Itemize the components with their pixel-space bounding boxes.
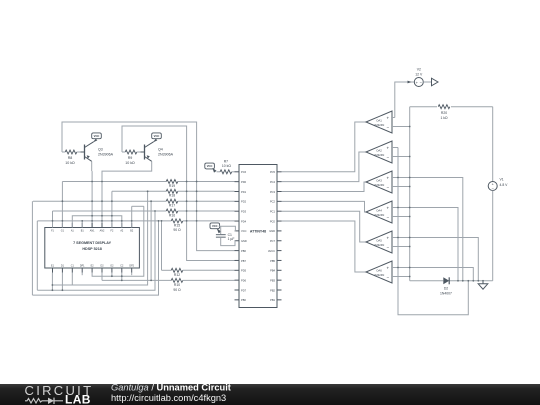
svg-text:−: − xyxy=(386,125,389,130)
D2 label xyxy=(440,287,452,296)
op-amp OA2 xyxy=(366,141,392,163)
wire junctions xyxy=(52,126,484,292)
svg-text:PB5: PB5 xyxy=(270,259,275,263)
svg-text:HDSP 5218: HDSP 5218 xyxy=(82,247,101,251)
svg-text:R20: R20 xyxy=(441,111,447,115)
wire Q3 base net from R8 up and over to PB6 pin of U1 xyxy=(62,122,235,251)
svg-text:R16: R16 xyxy=(169,213,175,217)
OA2 label xyxy=(374,149,385,157)
R12 label xyxy=(174,273,180,277)
svg-text:PB3: PB3 xyxy=(270,278,275,282)
diode D2 xyxy=(443,277,449,284)
footer title text xyxy=(111,383,231,403)
svg-text:R9: R9 xyxy=(128,156,133,160)
svg-text:PD5: PD5 xyxy=(241,269,247,273)
svg-text:OA5: OA5 xyxy=(376,239,382,243)
op-amp OA3 xyxy=(366,171,392,193)
svg-text:D2: D2 xyxy=(444,287,448,291)
transistor Q3 xyxy=(81,142,94,162)
svg-text:Q4: Q4 xyxy=(158,148,163,152)
wire + input extension OA6 to ground rail xyxy=(398,268,473,281)
op-amp OA4 xyxy=(366,201,392,223)
svg-text:−: − xyxy=(386,185,389,190)
svg-text:R8: R8 xyxy=(68,156,73,160)
wire G1 column xyxy=(61,182,63,228)
wire segment row R15 from x37.4 to U1 pin xyxy=(37,220,234,222)
wire OA3 + input stub xyxy=(392,177,398,179)
svg-text:PD7: PD7 xyxy=(241,288,247,292)
wire V1 top xyxy=(492,107,494,182)
OA6 label xyxy=(374,269,385,277)
svg-text:R19: R19 xyxy=(169,184,175,188)
wire PC2 to op-amp OA4 output xyxy=(282,201,367,212)
wire segment row R17 from x33 to U1 pin xyxy=(33,200,235,202)
svg-text:OA6: OA6 xyxy=(376,269,382,273)
wire PD2 wraparound column xyxy=(31,201,33,295)
OA3 label xyxy=(374,179,385,187)
svg-text:R12: R12 xyxy=(174,273,180,277)
wire cluster v5 stair xyxy=(32,221,158,295)
svg-text:LM324N: LM324N xyxy=(374,213,385,217)
svg-text:LM324N: LM324N xyxy=(374,243,385,247)
svg-text:PB1: PB1 xyxy=(270,298,275,302)
wire OA6 - input stub xyxy=(392,276,410,278)
svg-text:−: − xyxy=(386,275,389,280)
wire C1 bottom to GND pin xyxy=(221,237,235,245)
svg-text:PB2: PB2 xyxy=(270,288,275,292)
svg-text:+: + xyxy=(386,145,389,150)
wire ground rail xyxy=(410,280,493,282)
svg-text:OA1: OA1 xyxy=(376,119,382,123)
svg-text:90 Ω: 90 Ω xyxy=(173,288,181,292)
wire C1 top to VCC pin xyxy=(219,226,236,234)
wire OA5 - input stub xyxy=(392,246,410,248)
VCC flag at Q4 collector xyxy=(152,133,162,143)
svg-text:PC2: PC2 xyxy=(270,200,276,204)
svg-text:PD4: PD4 xyxy=(241,219,247,223)
svg-text:Gantulga / Unnamed Circuit: Gantulga / Unnamed Circuit xyxy=(111,383,231,393)
svg-text:VCC: VCC xyxy=(241,229,247,233)
wire segment row R16 from x52.5 to U1 pin xyxy=(53,210,235,212)
wire OA1 + input to V2 xyxy=(392,117,395,119)
wire PC5 to op-amp OA1 output xyxy=(282,122,367,172)
svg-text:R18: R18 xyxy=(169,194,175,198)
OA1 label xyxy=(374,119,385,127)
svg-text:LM324N: LM324N xyxy=(374,123,385,127)
svg-text:PB4: PB4 xyxy=(270,269,275,273)
R20 label xyxy=(440,111,448,120)
R19 label xyxy=(169,184,175,188)
R7 label xyxy=(222,160,231,168)
svg-text:AN2: AN2 xyxy=(100,230,105,233)
wire + input extension OA4 to ground rail xyxy=(398,208,458,281)
R9 value label xyxy=(125,156,135,165)
resistor R9 xyxy=(122,150,141,154)
Q3 label xyxy=(98,148,114,157)
wire E1 drop xyxy=(51,273,53,291)
svg-text:PC5: PC5 xyxy=(270,170,276,174)
transistor Q4 xyxy=(141,142,154,162)
svg-text:PD6: PD6 xyxy=(241,278,247,282)
svg-text:LAB: LAB xyxy=(65,393,91,405)
svg-text:DP1: DP1 xyxy=(80,265,85,268)
wire R20 left lead xyxy=(410,106,437,108)
svg-text:VCC: VCC xyxy=(212,224,218,228)
svg-text:90 Ω: 90 Ω xyxy=(173,228,181,232)
resistor R17 xyxy=(166,199,178,203)
wire OA4 + input stub xyxy=(392,207,398,209)
CircuitLab logo xyxy=(25,383,94,405)
output port marker xyxy=(432,78,439,86)
wire segment row R19 from x62.4 to U1 pin xyxy=(62,181,234,183)
wire OA5 + input stub xyxy=(392,237,398,239)
svg-text:Q3: Q3 xyxy=(98,148,103,152)
V2 label xyxy=(415,67,423,76)
svg-text:−: − xyxy=(386,215,389,220)
U1 name label xyxy=(250,229,266,233)
svg-text:GND: GND xyxy=(241,239,247,243)
OA4 label xyxy=(374,209,385,217)
svg-text:PC1: PC1 xyxy=(270,210,276,214)
svg-text:LM324N: LM324N xyxy=(374,183,385,187)
wire Q3 emitter to display AN1 pin xyxy=(91,161,93,227)
wire DP2 stub xyxy=(131,273,133,276)
voltage source V1 xyxy=(488,182,497,192)
op-amp OA1 xyxy=(366,111,392,133)
wire + input extension OA3 to ground rail xyxy=(398,178,463,281)
wire cluster v4 stair xyxy=(37,211,155,290)
resistor R12 xyxy=(171,268,183,272)
svg-text:2N3906A: 2N3906A xyxy=(98,153,114,157)
wire V2 right terminal xyxy=(423,81,431,83)
VCC flag at C1 xyxy=(210,223,221,233)
svg-text:GND: GND xyxy=(269,229,275,233)
svg-text:+: + xyxy=(386,205,389,210)
wire + input extension OA5 to ground rail xyxy=(398,238,478,281)
svg-text:R17: R17 xyxy=(169,204,175,208)
wire segment row R18 from x111.9 to U1 pin xyxy=(112,190,235,192)
op-amp OA5 xyxy=(366,231,392,253)
resistor R7 xyxy=(220,170,232,174)
svg-text:VCC: VCC xyxy=(207,164,213,168)
svg-text:2N3906A: 2N3906A xyxy=(158,153,174,157)
wire F2 column xyxy=(111,191,113,227)
resistor R8 xyxy=(62,150,81,154)
svg-text:http://circuitlab.com/c4fkgn3: http://circuitlab.com/c4fkgn3 xyxy=(111,393,226,403)
wire DP1 stub xyxy=(81,273,83,276)
svg-text:10 kΩ: 10 kΩ xyxy=(125,161,135,165)
svg-text:10 kΩ: 10 kΩ xyxy=(65,161,75,165)
resistor R16 xyxy=(166,209,178,213)
OA5 label xyxy=(374,239,385,247)
svg-text:+: + xyxy=(386,265,389,270)
svg-text:PC7: PC7 xyxy=(270,239,276,243)
R15 label xyxy=(173,223,181,232)
svg-text:+: + xyxy=(386,115,389,120)
wire D2 drop to R10 row xyxy=(101,273,103,281)
wire Q4 base net from R9 up and over to PB7 pin of U1 xyxy=(122,126,235,260)
wire PC4 to op-amp OA2 output xyxy=(282,152,367,182)
svg-text:+: + xyxy=(386,175,389,180)
wire OA6 + input stub xyxy=(392,267,398,269)
wire PC0 to op-amp OA6 output xyxy=(282,221,367,272)
svg-text:PC6: PC6 xyxy=(241,170,247,174)
svg-text:R15: R15 xyxy=(174,223,180,227)
resistor R19 xyxy=(166,180,178,184)
wire R7 to PC6 xyxy=(217,171,235,173)
svg-text:OA3: OA3 xyxy=(376,179,382,183)
resistor R18 xyxy=(166,189,178,193)
svg-text:LM324N: LM324N xyxy=(374,153,385,157)
resistor R10 xyxy=(171,278,183,282)
svg-text:−: − xyxy=(386,245,389,250)
wire row R12 to PD5 xyxy=(162,269,235,271)
capacitor C1 xyxy=(216,235,226,238)
svg-text:ATTINY48: ATTINY48 xyxy=(250,229,266,233)
svg-text:PB6: PB6 xyxy=(241,249,246,253)
wire cluster v1 to E2 xyxy=(92,206,144,276)
wire B1-B2 bridge xyxy=(82,206,132,227)
wire rail non-inverting bus xyxy=(398,148,468,315)
svg-text:AVCC: AVCC xyxy=(268,249,275,253)
wire PC1 to op-amp OA5 output xyxy=(282,211,367,242)
resistor R20 xyxy=(438,105,450,109)
svg-text:PD2: PD2 xyxy=(241,200,247,204)
svg-text:7 SEGMENT DISPLAY: 7 SEGMENT DISPLAY xyxy=(73,241,112,245)
microcontroller U1 ATTINY48 xyxy=(235,165,282,308)
svg-text:+: + xyxy=(386,235,389,240)
ground xyxy=(478,281,488,289)
footer bar xyxy=(0,384,540,405)
wire row R10 to PD6 xyxy=(102,279,235,281)
svg-text:PB0: PB0 xyxy=(241,298,246,302)
svg-text:PD3: PD3 xyxy=(241,210,247,214)
wire A1-A2 bridge xyxy=(72,216,122,228)
R16 label xyxy=(169,213,175,217)
op-amp OA6 xyxy=(366,261,392,283)
VCC flag at R7 xyxy=(205,163,217,173)
svg-text:AN1: AN1 xyxy=(90,230,95,233)
wire cluster v3 to row R10 xyxy=(150,201,152,280)
V1 label xyxy=(500,178,509,187)
wire D1 drop xyxy=(61,273,63,291)
svg-text:PB7: PB7 xyxy=(241,259,246,263)
display pin labels xyxy=(51,230,135,268)
wire OA4 - input stub xyxy=(392,216,410,218)
svg-text:10 kΩ: 10 kΩ xyxy=(222,164,231,168)
wire C2 drop xyxy=(121,273,123,281)
svg-text:1 kΩ: 1 kΩ xyxy=(440,116,448,120)
wire R20 right lead xyxy=(451,106,493,108)
svg-text:OA4: OA4 xyxy=(376,209,382,213)
voltage source V2 xyxy=(414,78,423,87)
wire Q4 emitter to display AN2 pin xyxy=(102,161,152,227)
VCC flag at Q3 collector xyxy=(92,133,102,143)
svg-text:−: − xyxy=(386,155,389,160)
svg-text:PC4: PC4 xyxy=(270,180,276,184)
wire rail inverting bus xyxy=(409,107,411,281)
R18 label xyxy=(169,194,175,198)
wire OA3 - input stub xyxy=(392,186,410,188)
wire V2 to OA1 + input xyxy=(395,82,415,118)
wire cluster v2 to C1 stair xyxy=(52,191,147,285)
resistor R15 xyxy=(171,219,183,223)
svg-text:V1: V1 xyxy=(500,178,504,182)
svg-text:1 µF: 1 µF xyxy=(228,237,235,241)
svg-text:PD0: PD0 xyxy=(241,180,247,184)
wire OA2 + input stub xyxy=(392,147,398,149)
svg-text:VCC: VCC xyxy=(94,134,100,138)
wire G2 drop xyxy=(111,273,113,277)
svg-text:PD1: PD1 xyxy=(241,190,247,194)
svg-text:R10: R10 xyxy=(174,283,180,287)
R8 value label xyxy=(65,156,75,165)
svg-text:DP2: DP2 xyxy=(129,265,134,268)
svg-text:12 V: 12 V xyxy=(415,73,423,77)
R10 label xyxy=(173,283,181,292)
svg-text:4.8 V: 4.8 V xyxy=(500,183,509,187)
svg-text:PC0: PC0 xyxy=(270,219,276,223)
svg-text:PC3: PC3 xyxy=(270,190,276,194)
wire F1 column xyxy=(52,211,54,228)
svg-text:1N4007: 1N4007 xyxy=(440,292,452,296)
U1 pin labels xyxy=(241,170,276,302)
wire OA2 - input stub xyxy=(392,156,410,158)
svg-text:VCC: VCC xyxy=(154,134,160,138)
svg-text:OA2: OA2 xyxy=(376,149,382,153)
Q4 label xyxy=(158,148,174,157)
current arrow at V2 xyxy=(408,81,412,84)
wire PC3 to op-amp OA3 output xyxy=(282,182,367,192)
display title label xyxy=(73,241,112,251)
wire B2 upper branch xyxy=(132,205,144,207)
svg-text:V2: V2 xyxy=(417,67,421,71)
wire V1 bottom xyxy=(492,191,494,281)
wire PD4 wraparound column xyxy=(36,221,38,290)
C1 label xyxy=(228,233,235,241)
7-segment display U2 HDSP 5218 xyxy=(45,223,140,273)
svg-text:LM324N: LM324N xyxy=(374,273,385,277)
wire OA1 - input stub xyxy=(392,126,410,128)
wire cluster v6 to R12 row start xyxy=(161,221,163,270)
R17 label xyxy=(169,204,175,208)
